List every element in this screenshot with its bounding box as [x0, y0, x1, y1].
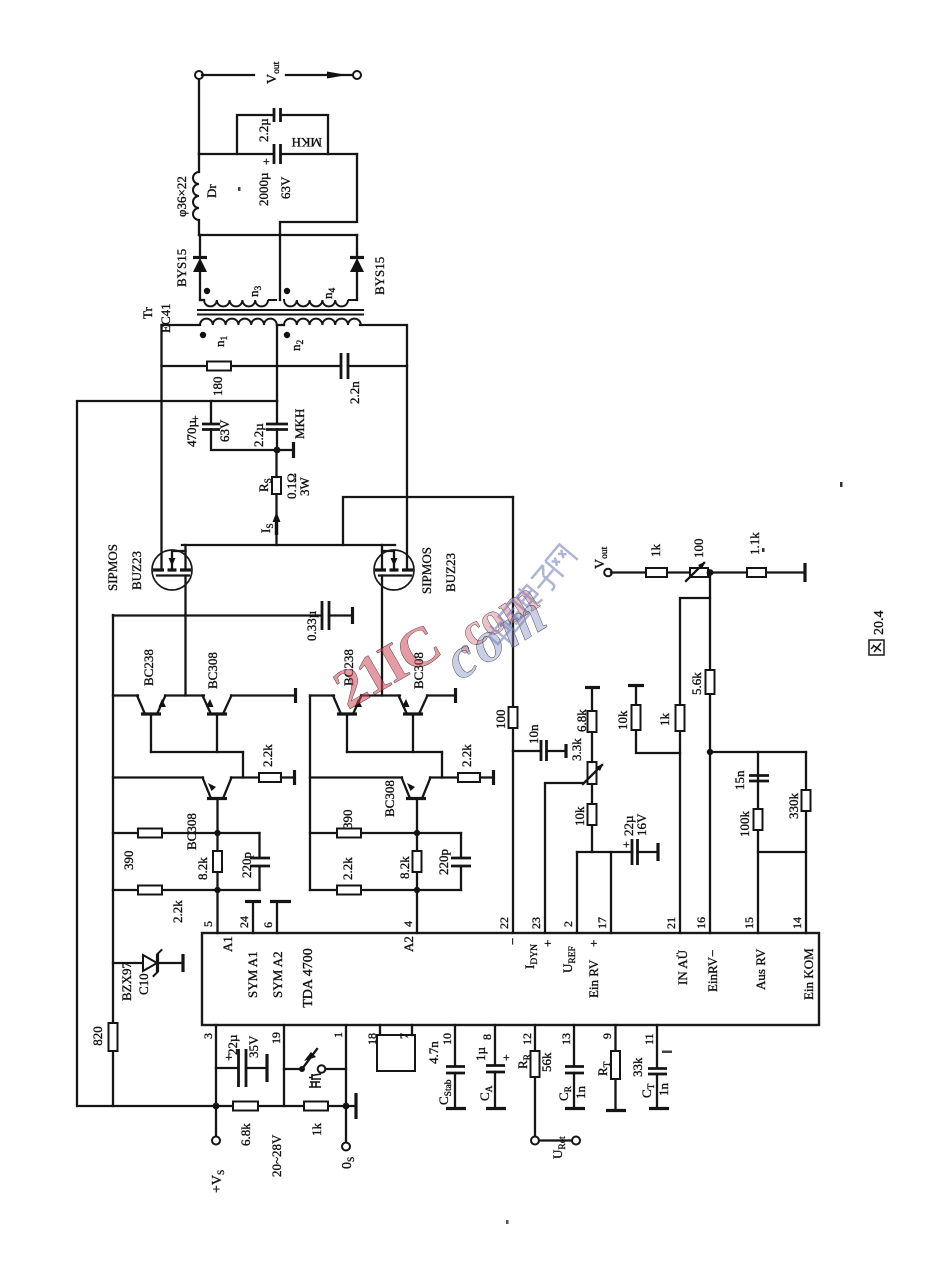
wire: rectifier output rail: [199, 234, 357, 236]
IC pin 17 wire: [610, 852, 612, 933]
svg-text:100k: 100k: [737, 811, 752, 838]
svg-text:BUZ23: BUZ23: [443, 553, 458, 592]
resistor 6.8k (ref divider): [574, 688, 600, 763]
capacitor 22u 16V (ref): [619, 813, 658, 865]
capacitor 2.2n: [341, 353, 362, 404]
resistor R_R 56k on pin12 with U_Ret terminals: [515, 1025, 580, 1159]
wire: gate drive right: [381, 576, 383, 696]
svg-text:16V: 16V: [634, 813, 649, 836]
svg-text:SYM A1: SYM A1: [245, 951, 260, 998]
IC pin 17 label Ein RV +: [586, 917, 609, 998]
wire: IC pin5 to Q3 base (8.2k line): [216, 799, 218, 890]
resistor 8.2k (left channel): [195, 851, 222, 880]
wire: top DC bus rail: [77, 401, 277, 1106]
ground bar at Rs node: [292, 442, 295, 458]
svg-text:63V: 63V: [278, 176, 293, 199]
svg-text:390: 390: [340, 810, 355, 830]
capacitor 2.2u MKH (primary side): [251, 401, 307, 450]
wire: drain U2 to transformer n2: [360, 325, 407, 570]
svg-text:820: 820: [90, 1026, 105, 1046]
zener diode BZX97 C10: [113, 950, 183, 1001]
transformer secondary winding n4: [284, 288, 357, 307]
resistor 2.2k (right channel lower): [337, 857, 361, 895]
ground bar left totem: [294, 688, 297, 703]
svg-text:BC308: BC308: [205, 652, 220, 689]
svg-text:MKH: MKH: [292, 135, 322, 150]
svg-text:22µ: 22µ: [225, 1034, 240, 1055]
resistor 2.2k (left channel lower): [138, 886, 185, 924]
resistor R_T 33k on pin9: [595, 1025, 645, 1111]
watermark char 中: [484, 619, 515, 650]
svg-text:EC41: EC41: [158, 303, 173, 333]
capacitor 0.33u decoupling: [113, 601, 353, 641]
svg-text:33k: 33k: [630, 1057, 645, 1077]
wire: bases line (right pair): [347, 751, 442, 753]
wire: gate drive left: [184, 576, 186, 696]
svg-text:180: 180: [210, 377, 225, 397]
wire: driver supply rail: [112, 615, 114, 1106]
transistor BC238 (right channel): [333, 649, 362, 752]
capacitor 2000u 63V output: [199, 144, 357, 206]
svg-text:5: 5: [201, 921, 215, 927]
node dots 8.2k line left: [214, 887, 220, 893]
svg-text:+: +: [499, 1054, 513, 1061]
node dot pin1/rail: [343, 1103, 350, 1110]
node dot Rs ground node: [274, 447, 281, 454]
resistor 10k (ref divider): [572, 784, 597, 852]
svg-text:14: 14: [790, 917, 804, 929]
terminal 0s: [340, 1106, 357, 1169]
IC TDA4700 box: [202, 933, 819, 1025]
svg-text:3: 3: [201, 1033, 215, 1039]
svg-text:5.6k: 5.6k: [689, 672, 704, 695]
IC pin 15 wire: [757, 752, 759, 933]
wire: right channel bias line (390 column): [310, 832, 461, 834]
potentiometer 3.3k: [569, 738, 604, 784]
svg-text:2.2k: 2.2k: [170, 900, 185, 923]
wire: left channel bias line (390 column): [113, 832, 260, 834]
svg-text:TDA 4700: TDA 4700: [301, 948, 316, 1008]
caption 图 20.4: [869, 640, 884, 655]
transformer primary winding n2: [277, 319, 361, 351]
node dot divider/pin16: [707, 569, 714, 576]
svg-text:A1: A1: [220, 936, 235, 952]
svg-text:8.2k: 8.2k: [195, 857, 210, 880]
svg-text:15: 15: [742, 917, 756, 929]
resistor Rs 0.1ohm 3W: [256, 450, 312, 545]
svg-text:1: 1: [331, 1032, 345, 1038]
wire: source sense to pin22 riser: [343, 497, 513, 545]
svg-text:11: 11: [642, 1033, 656, 1045]
watermark char 网: [545, 544, 578, 576]
resistor 2.2k (Q3' collector load, right): [458, 744, 494, 785]
IC pin 2 wire: [576, 852, 578, 933]
scan specks: [238, 187, 843, 1224]
svg-text:Aus RV: Aus RV: [753, 948, 768, 990]
svg-text:Ein KOM: Ein KOM: [801, 948, 816, 1000]
transformer Tr EC41 labels: [140, 303, 173, 333]
svg-text:390: 390: [121, 851, 136, 871]
svg-text:1k: 1k: [657, 713, 672, 727]
ground bar at left rail bottom: [354, 1093, 357, 1119]
MOSFET U1 SIPMOS BUZ23 (upper): [105, 544, 192, 591]
capacitor 220p (left channel): [239, 833, 270, 890]
transistor BC238 (left channel): [137, 649, 166, 752]
resistor 1k (pin21): [657, 705, 685, 731]
wire: Q3 collector to bases link: [242, 752, 244, 778]
svg-text:IN AÜ: IN AÜ: [675, 949, 690, 985]
diode BYS15 (top): [174, 235, 207, 287]
svg-text:20~28V: 20~28V: [269, 1134, 284, 1177]
svg-text:MKH: MKH: [292, 409, 307, 439]
svg-text:15n: 15n: [732, 770, 747, 790]
terminal V+ output: [195, 71, 203, 79]
potentiometer 100 (divider): [686, 539, 708, 582]
transistor BC308 (left channel): [203, 652, 232, 752]
svg-text:6.8k: 6.8k: [238, 1123, 253, 1146]
svg-text:SIPMOS: SIPMOS: [419, 547, 434, 594]
svg-text:4: 4: [401, 921, 415, 927]
svg-text:21: 21: [664, 917, 678, 929]
svg-text:6.8k: 6.8k: [574, 709, 589, 732]
svg-text:BC308: BC308: [184, 813, 199, 850]
IC pin 19 wire: [269, 1025, 284, 1106]
svg-text:1.1k: 1.1k: [747, 532, 762, 555]
wire: V+ rail to terminal: [198, 75, 200, 154]
watermark char 子: [529, 563, 562, 596]
transistor Q3 BC308 (left channel driver): [113, 778, 259, 851]
svg-text:−: −: [505, 938, 520, 945]
resistor 1k (input rail): [304, 1102, 328, 1137]
wire: left channel bias line (2.2k column): [113, 889, 260, 891]
resistor 180: [207, 362, 231, 397]
svg-text:220p: 220p: [436, 849, 451, 875]
svg-text:Dr: Dr: [204, 184, 219, 198]
IC pin 21 label IN AU: [664, 917, 690, 985]
diode BYS15 (bottom): [350, 235, 387, 295]
IC pin 3 wire: [201, 1025, 216, 1106]
svg-text:2000µ: 2000µ: [256, 172, 271, 206]
svg-text:+: +: [619, 841, 633, 848]
watermark 21IC.com 中国电子网: [324, 544, 578, 721]
IC pin 18 stub: [365, 1025, 380, 1045]
wire: right driver totem rail segments: [310, 694, 455, 696]
svg-text:BC308: BC308: [382, 780, 397, 817]
IC pin 21 wire: [680, 598, 710, 933]
wire: pin2/pin17 node line: [577, 851, 632, 853]
svg-text:6: 6: [261, 922, 275, 928]
IC pin 22 label: [497, 917, 520, 945]
terminal +Vs: [210, 1106, 227, 1193]
wire: right channel bias line (2.2k column): [310, 889, 461, 891]
watermark char 国: [499, 600, 530, 631]
node dot pin3/rail: [213, 1103, 220, 1110]
wire: divider column: [611, 571, 805, 573]
IC pin 5 wire (A1): [201, 890, 235, 952]
IC pin 14 wire: [805, 752, 807, 933]
svg-text:+: +: [221, 1054, 236, 1061]
svg-text:+: +: [586, 940, 601, 947]
IC pin 16 label EinRV-: [694, 917, 720, 992]
switch (duan) between pin19 and pin1 nets: [284, 1049, 346, 1087]
arrow on output wire: [327, 72, 347, 79]
IC pin 14 label Ein KOM: [790, 917, 816, 1000]
terminal V- output: [353, 71, 361, 79]
svg-text:2: 2: [561, 921, 575, 927]
wire: bus to center tap: [276, 325, 278, 401]
svg-text:A2: A2: [401, 936, 416, 952]
capacitor 2.2u MKH film (output): [237, 108, 328, 154]
wire: output right edge with Vout label gap: [202, 74, 353, 76]
wire: secondary center tap to output return: [280, 154, 357, 300]
IC pin 23 label I_DYN: [522, 917, 555, 969]
IC pin 7 stub: [397, 1025, 412, 1039]
transformer primary winding n1: [162, 319, 277, 347]
resistor 8.2k (right channel): [397, 851, 422, 879]
wire: common source rail: [182, 544, 395, 546]
IC pin 4 wire (A2): [401, 890, 417, 952]
svg-text:4.7n: 4.7n: [426, 1041, 441, 1064]
transformer core: [198, 310, 363, 315]
svg-text:2.2k: 2.2k: [260, 744, 275, 767]
svg-text:BZX97: BZX97: [119, 962, 134, 1002]
choke Dr phi36x22: [174, 154, 219, 235]
svg-text:SYM A2: SYM A2: [270, 951, 285, 998]
svg-text:1n: 1n: [573, 1086, 588, 1100]
svg-text:1k: 1k: [648, 544, 663, 558]
IC pin 16 wire with 5.6k: [689, 573, 715, 933]
svg-text:BYS15: BYS15: [372, 257, 387, 295]
resistor 330k (comp): [786, 790, 811, 819]
svg-text:19: 19: [269, 1032, 283, 1044]
svg-text:23: 23: [529, 917, 543, 929]
component box between pins 18 and 7: [377, 1035, 415, 1071]
svg-text:470µ: 470µ: [184, 420, 199, 448]
capacitor 10n on pin22 line: [513, 724, 566, 761]
svg-text:Tr: Tr: [140, 307, 155, 319]
svg-text:16: 16: [694, 917, 708, 929]
svg-text:2.2µ: 2.2µ: [251, 423, 266, 447]
svg-text:12: 12: [520, 1033, 534, 1045]
svg-text:EinRV−: EinRV−: [705, 950, 720, 992]
resistor 1.1k (divider): [747, 532, 766, 577]
svg-text:0.33µ: 0.33µ: [304, 610, 319, 641]
IC pin 24 stub SYM A1: [237, 902, 261, 999]
resistor 390 (left channel): [121, 829, 162, 871]
node dot comp: [707, 749, 713, 755]
capacitor C_R 1n on pin13: [556, 1025, 588, 1109]
svg-text:17: 17: [595, 917, 609, 929]
capacitor C_stab 4.7n on pin10: [426, 1025, 466, 1109]
wire: left driver totem rail segments: [113, 694, 295, 696]
IC pin 15 label Aus RV: [742, 917, 768, 990]
capacitor C_T 1n on pin11: [639, 1025, 671, 1109]
resistor 10k (to pin21 line): [615, 686, 680, 754]
resistor 6.8k (input rail): [233, 1102, 258, 1147]
resistor 390 (right channel): [337, 810, 361, 838]
IC pin 22 wire with 100 resistor: [493, 497, 518, 933]
svg-text:10k: 10k: [615, 710, 630, 730]
svg-text:2.2µ: 2.2µ: [256, 118, 271, 142]
svg-text:C10: C10: [136, 973, 151, 995]
watermark char 电: [513, 583, 542, 611]
svg-text:2.2k: 2.2k: [340, 857, 355, 880]
transistor BC308 (right channel): [399, 652, 428, 752]
ground bar right totem: [454, 688, 457, 703]
svg-text:BC238: BC238: [141, 649, 156, 686]
IC pin 23 wire to pot wiper: [545, 783, 583, 933]
svg-text:13: 13: [559, 1033, 573, 1045]
capacitor 15n (comp): [732, 770, 769, 790]
wire: right channel supply rail: [309, 696, 311, 891]
svg-text:3.3k: 3.3k: [569, 738, 584, 761]
IC pin 6 stub SYM A2: [261, 902, 291, 999]
svg-text:24: 24: [237, 916, 251, 928]
svg-text:3W: 3W: [297, 477, 312, 497]
resistor 100k (comp): [737, 809, 763, 837]
wire: IC pin4 to Q3' base (8.2k line right): [416, 799, 418, 890]
svg-text:10n: 10n: [526, 724, 541, 744]
capacitor 470u 63V: [184, 401, 277, 450]
ground bar divider bottom: [803, 563, 806, 582]
svg-text:22: 22: [497, 917, 511, 929]
compensation node riser: [710, 751, 806, 753]
IC pin 1 wire: [331, 1025, 346, 1106]
wire: n3 to top diode: [199, 272, 201, 300]
svg-text:BYS15: BYS15: [174, 249, 189, 287]
svg-text:9: 9: [600, 1033, 614, 1039]
svg-text:+: +: [540, 940, 555, 947]
wire: bases line (left pair): [151, 751, 243, 753]
wire: Q3' collector to bases link: [441, 752, 443, 778]
feedback divider: terminal V out sense: [593, 546, 612, 576]
MOSFET U2 SIPMOS BUZ23 (lower): [374, 545, 458, 594]
capacitor 22u 35V on pin3: [216, 1034, 267, 1087]
wire: input left rail: [78, 1105, 356, 1107]
svg-text:20.4: 20.4: [872, 611, 887, 636]
svg-text:56k: 56k: [539, 1052, 554, 1072]
svg-text:10: 10: [440, 1033, 454, 1045]
svg-text:8: 8: [480, 1034, 494, 1040]
svg-text:2.2k: 2.2k: [459, 744, 474, 767]
svg-text:+: +: [259, 158, 273, 165]
svg-text:63V: 63V: [217, 419, 232, 442]
wire: damping line (180 / 2.2n): [162, 365, 408, 367]
svg-text:1n: 1n: [656, 1083, 671, 1097]
resistor 820: [90, 1023, 118, 1051]
svg-text:10k: 10k: [572, 806, 587, 826]
resistor 1k (divider): [646, 544, 667, 578]
ground symbol at Rs node: [277, 449, 293, 451]
node dots 8.2k line right: [414, 887, 420, 893]
svg-text:35V: 35V: [246, 1035, 261, 1058]
svg-text:100: 100: [691, 539, 706, 559]
svg-text:2.2n: 2.2n: [347, 381, 362, 404]
capacitor C_A 1u on pin8: [473, 1025, 513, 1109]
svg-text:100: 100: [493, 710, 508, 730]
resistor 2.2k (Q3 collector load, left): [259, 744, 295, 785]
wire: n4 to bottom diode: [356, 272, 358, 300]
svg-text:1µ: 1µ: [473, 1047, 488, 1062]
svg-text:SIPMOS: SIPMOS: [105, 544, 120, 591]
svg-text:7: 7: [397, 1033, 411, 1039]
svg-text:1k: 1k: [309, 1123, 324, 1137]
svg-text:330k: 330k: [786, 793, 801, 820]
IC pin 2 label U_REF: [560, 921, 578, 973]
transistor Q3' BC308 (right channel driver): [310, 778, 458, 818]
svg-text:8.2k: 8.2k: [397, 856, 412, 879]
wire: comp link: [758, 851, 806, 853]
svg-text:Ein RV: Ein RV: [586, 959, 601, 998]
capacitor 220p (right channel): [436, 833, 471, 890]
transformer secondary winding n3: [200, 286, 276, 307]
wire: drain U1 to transformer n1: [160, 325, 162, 570]
svg-text:φ36×22: φ36×22: [174, 176, 189, 217]
svg-text:220p: 220p: [239, 852, 254, 878]
svg-text:BUZ23: BUZ23: [129, 551, 144, 590]
